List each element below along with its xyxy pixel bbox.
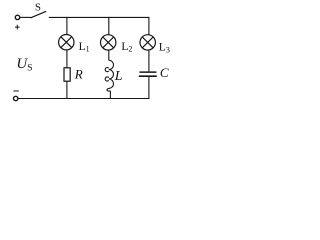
wire: lamp L2 to inductor L bbox=[108, 50, 110, 60]
resistor R bbox=[64, 68, 70, 81]
terminal + (positive supply terminal) bbox=[15, 15, 20, 29]
wire from + terminal to switch pivot bbox=[20, 16, 31, 18]
terminal - (negative supply terminal) bbox=[13, 91, 18, 101]
svg-text:L: L bbox=[114, 69, 123, 84]
lamp L3 bbox=[140, 35, 155, 50]
bottom rail wire bbox=[18, 98, 150, 100]
inductor L coil bbox=[105, 60, 113, 91]
wire: branch 1 drop to lamp L1 bbox=[66, 17, 68, 35]
lamp L1 bbox=[59, 35, 74, 50]
svg-text:S: S bbox=[35, 2, 41, 14]
wire: inductor L to bottom rail bbox=[109, 91, 111, 99]
lamp L2 bbox=[101, 35, 116, 50]
wire: resistor R to bottom rail bbox=[66, 81, 68, 99]
top rail wire bbox=[49, 16, 150, 18]
wire: lamp L1 to resistor R bbox=[66, 50, 68, 68]
capacitor C plates bbox=[139, 72, 157, 76]
svg-text:R: R bbox=[74, 67, 83, 82]
wire: branch 2 drop to lamp L2 bbox=[108, 17, 110, 35]
switch S blade (open) bbox=[30, 11, 46, 18]
svg-text:C: C bbox=[160, 65, 169, 80]
wire: branch 3 top corner drop to lamp L3 bbox=[148, 17, 150, 35]
wire: lamp L3 to capacitor C bbox=[148, 50, 150, 71]
wire: capacitor C to bottom rail bbox=[148, 77, 150, 99]
